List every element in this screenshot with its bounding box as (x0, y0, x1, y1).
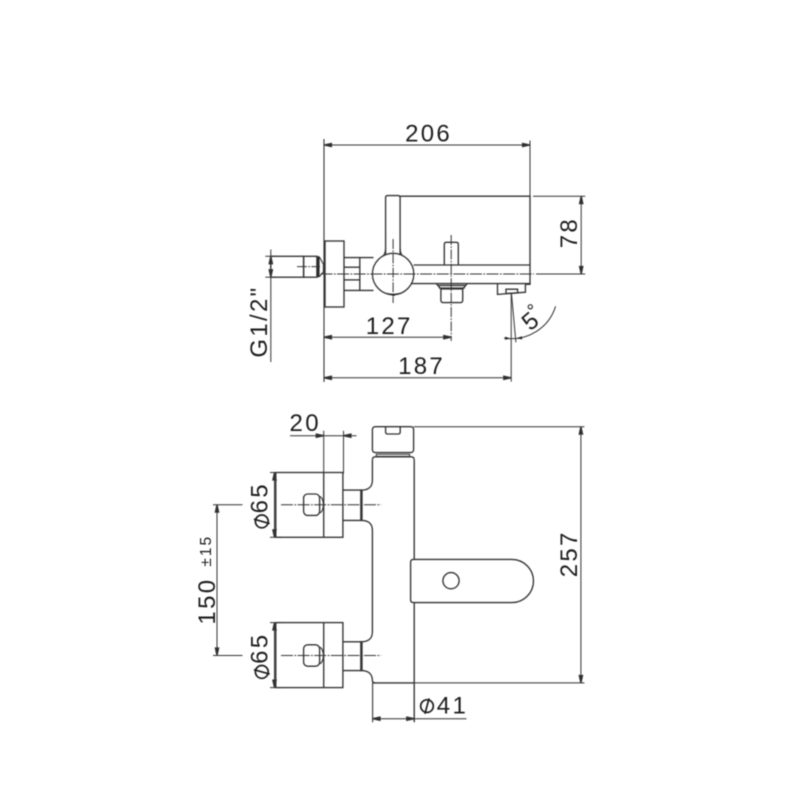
svg-text:187: 187 (398, 353, 445, 380)
svg-text:65: 65 (247, 633, 274, 664)
svg-text:127: 127 (366, 313, 413, 340)
svg-text:5: 5 (517, 305, 546, 336)
svg-text:±15: ±15 (198, 535, 215, 567)
svg-text:206: 206 (405, 121, 452, 148)
svg-text:257: 257 (556, 530, 583, 577)
svg-text:65: 65 (247, 482, 274, 513)
svg-text:41: 41 (437, 693, 468, 720)
svg-text:G1/2": G1/2" (246, 286, 273, 358)
svg-text:150: 150 (194, 578, 221, 625)
svg-text:20: 20 (290, 410, 321, 437)
svg-text:78: 78 (556, 217, 583, 248)
